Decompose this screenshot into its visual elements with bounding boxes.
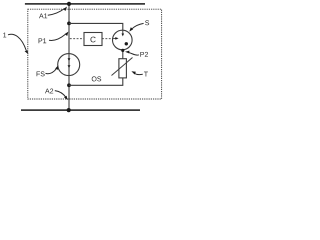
- label A2: [45, 89, 53, 94]
- switch S circle: [113, 30, 133, 50]
- sensor FS arrow mark upper: [68, 58, 71, 61]
- wire main vertical: [68, 4, 70, 110]
- arrow from P2 to node: [129, 53, 139, 56]
- arrow from A1 to node: [48, 9, 65, 16]
- wire A2 supply line: [21, 109, 140, 111]
- control arrow into switch: [114, 37, 116, 39]
- arrow from A2 to wire crossing: [55, 91, 66, 98]
- node junction on A1: [67, 2, 71, 6]
- label P1: [39, 38, 47, 43]
- heater T diagonal: [112, 58, 133, 76]
- label A1: [39, 13, 47, 18]
- arrow from P1 to wire: [49, 34, 65, 40]
- arrow from S to switch circle: [132, 23, 144, 29]
- label C: [90, 37, 95, 43]
- wire switch to T: [122, 50, 124, 59]
- label OS: [92, 76, 101, 81]
- label 1: [3, 33, 6, 38]
- label P2: [140, 52, 148, 57]
- label FS: [37, 71, 45, 76]
- wire top horizontal to switch: [69, 23, 123, 30]
- arrow from T to heater: [134, 73, 143, 74]
- enclosure dashed box 1: [28, 9, 162, 99]
- switch S actuator stem: [122, 30, 124, 34]
- node junction on A2: [67, 108, 71, 112]
- node junction bottom of loop: [67, 83, 71, 87]
- heater T box: [119, 59, 127, 78]
- wire bottom horizontal from T: [69, 78, 123, 85]
- node junction top of loop: [67, 22, 71, 26]
- wire A1 supply line: [25, 3, 145, 5]
- control dashed line right: [102, 38, 114, 40]
- label T: [144, 72, 148, 77]
- controller C box: [84, 33, 102, 46]
- control dashed line left: [70, 38, 84, 40]
- arrow from 1 to box: [8, 34, 26, 50]
- sensor FS arrow mark lower: [68, 65, 71, 68]
- arrow from FS to circle: [46, 68, 57, 74]
- sensor FS circle: [58, 54, 80, 76]
- switch S contact dot: [125, 42, 128, 45]
- node P2 tap: [121, 49, 124, 52]
- label S: [145, 20, 149, 25]
